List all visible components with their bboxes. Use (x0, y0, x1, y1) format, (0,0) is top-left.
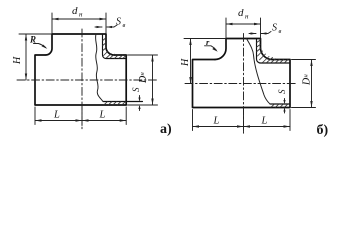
dimension H (b): extension line at branch top (184, 38, 226, 40)
dimension D_n (a): extension lines (128, 55, 158, 105)
dimension H (b): dimension line with arrows (190, 39, 192, 84)
hatching of branch/top wall section (b) (257, 40, 288, 63)
svg-text:d: d (238, 7, 244, 19)
svg-text:S: S (116, 17, 121, 28)
svg-text:L: L (99, 110, 106, 121)
caption a) (160, 122, 172, 137)
dimension L pair (b): dimension line (193, 126, 291, 128)
horizontal centerline (b) (185, 83, 296, 85)
wavy break line (a) (96, 34, 103, 102)
labels L L (b) (213, 116, 268, 127)
labels L L (a) (53, 110, 106, 121)
caption b) (317, 123, 329, 138)
dimension d_n (a): extension lines (52, 13, 106, 34)
svg-text:н: н (303, 74, 310, 77)
tee body outline (b) (193, 60, 291, 108)
svg-text:H: H (180, 58, 191, 67)
label S with arrows (a) (131, 87, 141, 92)
svg-text:б): б) (317, 123, 329, 138)
bottom wall section inner line (b) (270, 103, 290, 105)
label S with arrows (b) (277, 89, 287, 94)
vertical centerline (a) (81, 29, 83, 129)
label D_n (a), rotated (138, 72, 149, 84)
horizontal centerline (a) (17, 79, 158, 81)
label S_v (b) with pointer arrows (249, 32, 271, 34)
svg-text:S: S (277, 89, 287, 94)
hatching of bottom wall section (b) (271, 104, 288, 107)
dimension D_n (b): extension lines (292, 60, 316, 108)
svg-text:S: S (131, 87, 141, 92)
svg-text:а): а) (160, 122, 172, 137)
dimension L pair (a): dimension line (35, 120, 126, 122)
label R with leader arrow (a) (29, 35, 36, 45)
tee branch outline with fillets (a) (46, 34, 115, 55)
bottom wall section inner line (a) (103, 101, 143, 103)
label d_n (b) (238, 7, 249, 21)
dimension L pair (a): extension lines (35, 107, 126, 126)
label d_n (a) (72, 5, 83, 19)
svg-text:н: н (245, 13, 249, 21)
dimension d_n (b): dimension line with arrows (226, 23, 261, 25)
svg-text:в: в (123, 22, 126, 29)
svg-text:н: н (139, 72, 146, 75)
svg-text:н: н (79, 11, 83, 19)
svg-text:S: S (272, 23, 277, 34)
branch inner wall section line (a) (103, 35, 127, 59)
dimension H (a): extension line at branch top (19, 33, 52, 35)
hatching of bottom wall section (a) (104, 102, 125, 105)
label D_n (b), rotated (302, 74, 313, 86)
label H (a) (12, 56, 23, 65)
svg-text:в: в (279, 28, 282, 35)
hatching of branch/top wall section (a) (103, 38, 126, 58)
label r with leader arrow (b) (206, 37, 210, 47)
svg-text:R: R (29, 35, 36, 45)
vertical centerline (b) (243, 34, 245, 134)
svg-text:L: L (53, 110, 60, 121)
dimension H (a): dimension line with arrows (25, 34, 27, 80)
tee body outline (a) (35, 55, 126, 105)
svg-text:d: d (72, 5, 78, 17)
label H (b) (180, 58, 191, 67)
dimension L pair (b): extension lines (193, 109, 291, 131)
dimension d_n (b): extension lines (226, 18, 261, 38)
dimension D_n (a): dimension line (152, 55, 154, 105)
svg-text:H: H (12, 56, 23, 65)
wavy break line (b) (247, 39, 271, 105)
dimension D_n (b): dimension line (311, 60, 313, 108)
tee branch outline with fillets (b) (215, 39, 272, 60)
dimension d_n (a): dimension line with arrows (52, 18, 106, 20)
svg-text:L: L (261, 116, 268, 127)
branch inner wall section line (b) (257, 39, 291, 64)
svg-text:L: L (213, 116, 220, 127)
label S_v (a) with pointer arrows (95, 25, 117, 27)
